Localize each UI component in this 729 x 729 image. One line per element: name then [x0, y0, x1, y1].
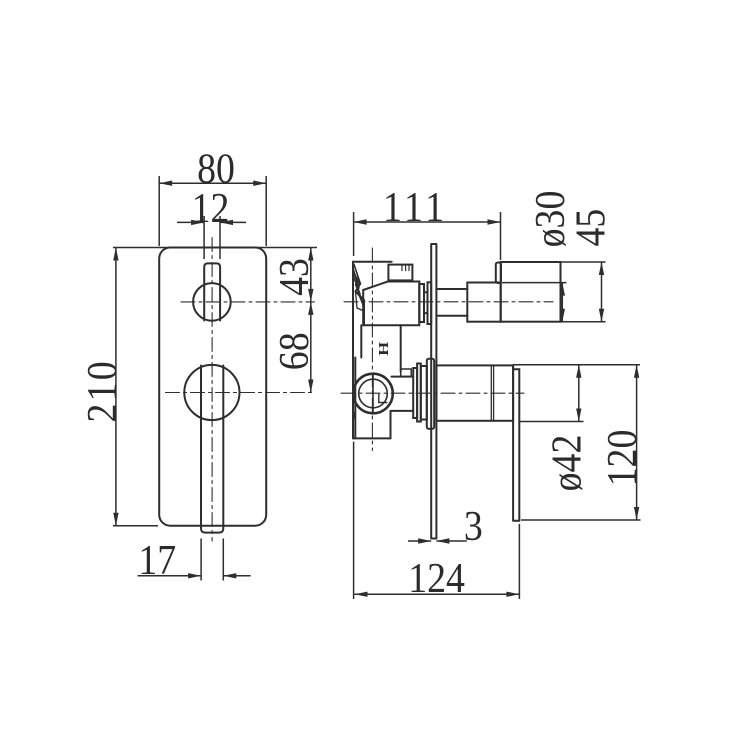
top washer 3	[428, 282, 432, 324]
dim 124 extension lines	[354, 442, 520, 599]
arrow 120 bottom	[634, 507, 639, 520]
dim 80 extension lines	[159, 176, 266, 246]
dim 120 line	[636, 365, 638, 520]
small circle (diverter trim)	[193, 283, 231, 321]
svg-text:3: 3	[464, 502, 483, 549]
dim 210 line	[115, 248, 117, 526]
dim 45 extension lines	[502, 262, 606, 322]
front vertical centerline	[211, 238, 213, 542]
adapter knurl	[402, 265, 409, 271]
svg-text:68: 68	[270, 332, 317, 370]
top outlet mid block	[467, 283, 500, 322]
side body back edge	[352, 262, 354, 439]
top washer 2	[424, 292, 428, 313]
arrow 17 right	[223, 573, 236, 578]
wedge lower notch	[356, 292, 365, 312]
top outlet stem	[436, 289, 467, 316]
bottom washer 2	[417, 364, 421, 422]
bottom block left edge	[354, 358, 356, 439]
arrow phi30 top	[560, 283, 565, 296]
dim 45 line	[601, 262, 603, 322]
dim 17 extension lines	[201, 539, 223, 581]
top extension long line	[113, 247, 317, 249]
dim 80 line	[159, 182, 266, 184]
svg-text:43: 43	[270, 258, 317, 296]
dim phi30 extension line	[502, 282, 567, 284]
outlet pipe bottom	[392, 410, 414, 412]
top knob tab side	[496, 263, 501, 284]
arrow 80 right	[253, 181, 266, 186]
bottom extension line	[113, 525, 158, 527]
arrow 43 bottom	[308, 289, 313, 302]
arrow 68 top	[308, 302, 313, 315]
arrow phi42 bottom	[576, 409, 581, 422]
dim 111 extension lines	[354, 212, 501, 260]
outlet pipe top	[392, 376, 414, 378]
svg-text:124: 124	[408, 554, 465, 601]
bottom flange	[427, 359, 434, 429]
dim 17 line	[138, 575, 251, 577]
arrow 80 left	[159, 181, 172, 186]
top outlet big block	[501, 262, 561, 322]
small circle centerline	[181, 301, 315, 303]
arrow 111 right	[488, 219, 501, 224]
arrow 210 top	[113, 248, 118, 261]
arrow 12 left	[191, 220, 204, 225]
arrow 3 left	[418, 538, 431, 543]
handle wedge hatching	[354, 265, 364, 307]
dim 12 line	[177, 221, 246, 223]
boss slot line	[372, 375, 374, 413]
dim 43-68 line	[310, 248, 312, 393]
dim phi42 line	[578, 365, 580, 422]
arrow 111 left	[354, 219, 367, 224]
bottom washer 3	[421, 366, 427, 420]
boss notch	[379, 394, 387, 403]
svg-text:H: H	[376, 341, 392, 356]
mid body left edge	[360, 325, 362, 357]
dim 111 line	[354, 221, 501, 223]
svg-text:210: 210	[78, 359, 125, 422]
svg-text:45: 45	[567, 209, 614, 247]
arrow 12 right	[220, 220, 233, 225]
arrow 17 left	[188, 573, 201, 578]
svg-text:120: 120	[598, 430, 645, 487]
front plate	[159, 248, 266, 526]
arrow 124 right	[506, 592, 519, 597]
mid body right edge	[400, 325, 402, 371]
arrow 68 bottom	[308, 380, 313, 393]
top small block (adapter)	[388, 265, 412, 281]
bottom block bottom edge	[353, 437, 391, 439]
svg-text:17: 17	[138, 536, 176, 583]
dim 120 bottom extension	[521, 519, 641, 521]
arrow phi30 bottom	[560, 309, 565, 322]
cylinder seam	[491, 365, 493, 420]
cartridge block	[363, 282, 419, 326]
svg-text:ø42: ø42	[542, 435, 589, 492]
diverter knob bar	[204, 263, 220, 320]
big circle centerline	[166, 392, 315, 394]
bottom washer 1	[413, 368, 417, 418]
bottom outlet centerline	[341, 392, 524, 394]
arrow 43 top	[308, 248, 313, 261]
top washer 1	[419, 284, 424, 322]
arrow 3 right	[436, 538, 449, 543]
bottom outlet cylinder	[436, 365, 513, 420]
arrow 45 bottom	[599, 309, 604, 322]
top outlet centerline	[344, 301, 553, 303]
dim phi42 extension lines	[513, 365, 640, 422]
dim 124 line	[355, 593, 520, 595]
dim 12 extension lines	[204, 216, 220, 259]
dim 3 line	[408, 540, 467, 542]
boss outer circle	[353, 374, 393, 414]
boss inner circle	[359, 379, 388, 408]
arrow 120 top	[634, 365, 639, 378]
side body vertical centerline	[371, 248, 373, 451]
arrow phi42 top	[576, 365, 581, 378]
svg-text:111: 111	[383, 183, 448, 230]
body chamfer	[353, 410, 355, 421]
arrow 124 left	[355, 592, 368, 597]
arrow 45 top	[599, 262, 604, 275]
svg-text:12: 12	[192, 184, 230, 231]
lever handle front	[201, 366, 223, 533]
bottom block right edge	[390, 411, 392, 439]
side body top edge	[353, 261, 392, 263]
arrow 210 bottom	[113, 513, 118, 526]
outlet pipe collar	[401, 369, 412, 377]
dim phi30 line	[561, 283, 563, 322]
handle wedge side	[353, 262, 364, 326]
wall plate side	[431, 244, 436, 539]
lever side bar	[513, 365, 519, 520]
big circle (mixer trim)	[184, 365, 239, 420]
